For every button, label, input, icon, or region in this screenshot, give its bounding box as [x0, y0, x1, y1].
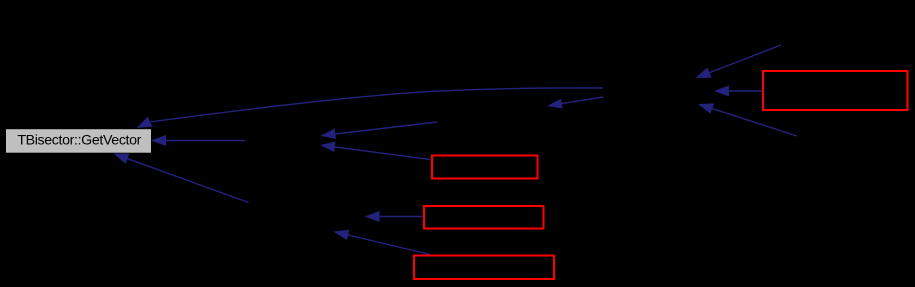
arrowhead E8	[320, 142, 336, 152]
edge E10: red node R3 -> hidden node D	[380, 216, 423, 218]
edge E3: red node R1 -> hidden node A	[729, 90, 762, 92]
arrowhead E4	[696, 68, 712, 79]
edge E4: hidden node F -> hidden node A	[710, 45, 782, 73]
edge E5: hidden node G -> hidden node A	[712, 109, 797, 136]
arrowhead E10	[365, 211, 380, 222]
edge E7: hidden node B -> hidden node C	[335, 122, 437, 134]
arrowhead E6	[151, 135, 166, 146]
node TBisector::GetVector (current function, grey)	[6, 129, 151, 153]
svg-text:TBisector::GetVector: TBisector::GetVector	[17, 132, 141, 148]
red node R3	[424, 206, 544, 229]
arrowhead E3	[714, 86, 729, 97]
edge E11: red node R4 -> hidden node D	[348, 235, 430, 255]
edge E9: hidden node D -> TBisector::GetVector	[128, 159, 249, 203]
edge E1: hidden node B -> TBisector::GetVector (long curve)	[151, 88, 603, 122]
arrowhead E9	[114, 154, 130, 164]
red node R4	[414, 256, 554, 280]
edge E6: hidden node C -> TBisector::GetVector	[166, 140, 245, 142]
arrowhead E11	[334, 230, 350, 240]
arrowhead E7	[321, 129, 337, 139]
red node R1 (top right)	[763, 71, 908, 110]
arrowhead E1	[137, 117, 153, 128]
edge E8: red node R2 -> hidden node C	[335, 147, 430, 160]
arrowhead E5	[698, 103, 714, 113]
red node R2	[432, 156, 538, 179]
edge E2: hidden node A -> hidden node B	[562, 97, 603, 104]
arrowhead E2	[547, 99, 563, 109]
